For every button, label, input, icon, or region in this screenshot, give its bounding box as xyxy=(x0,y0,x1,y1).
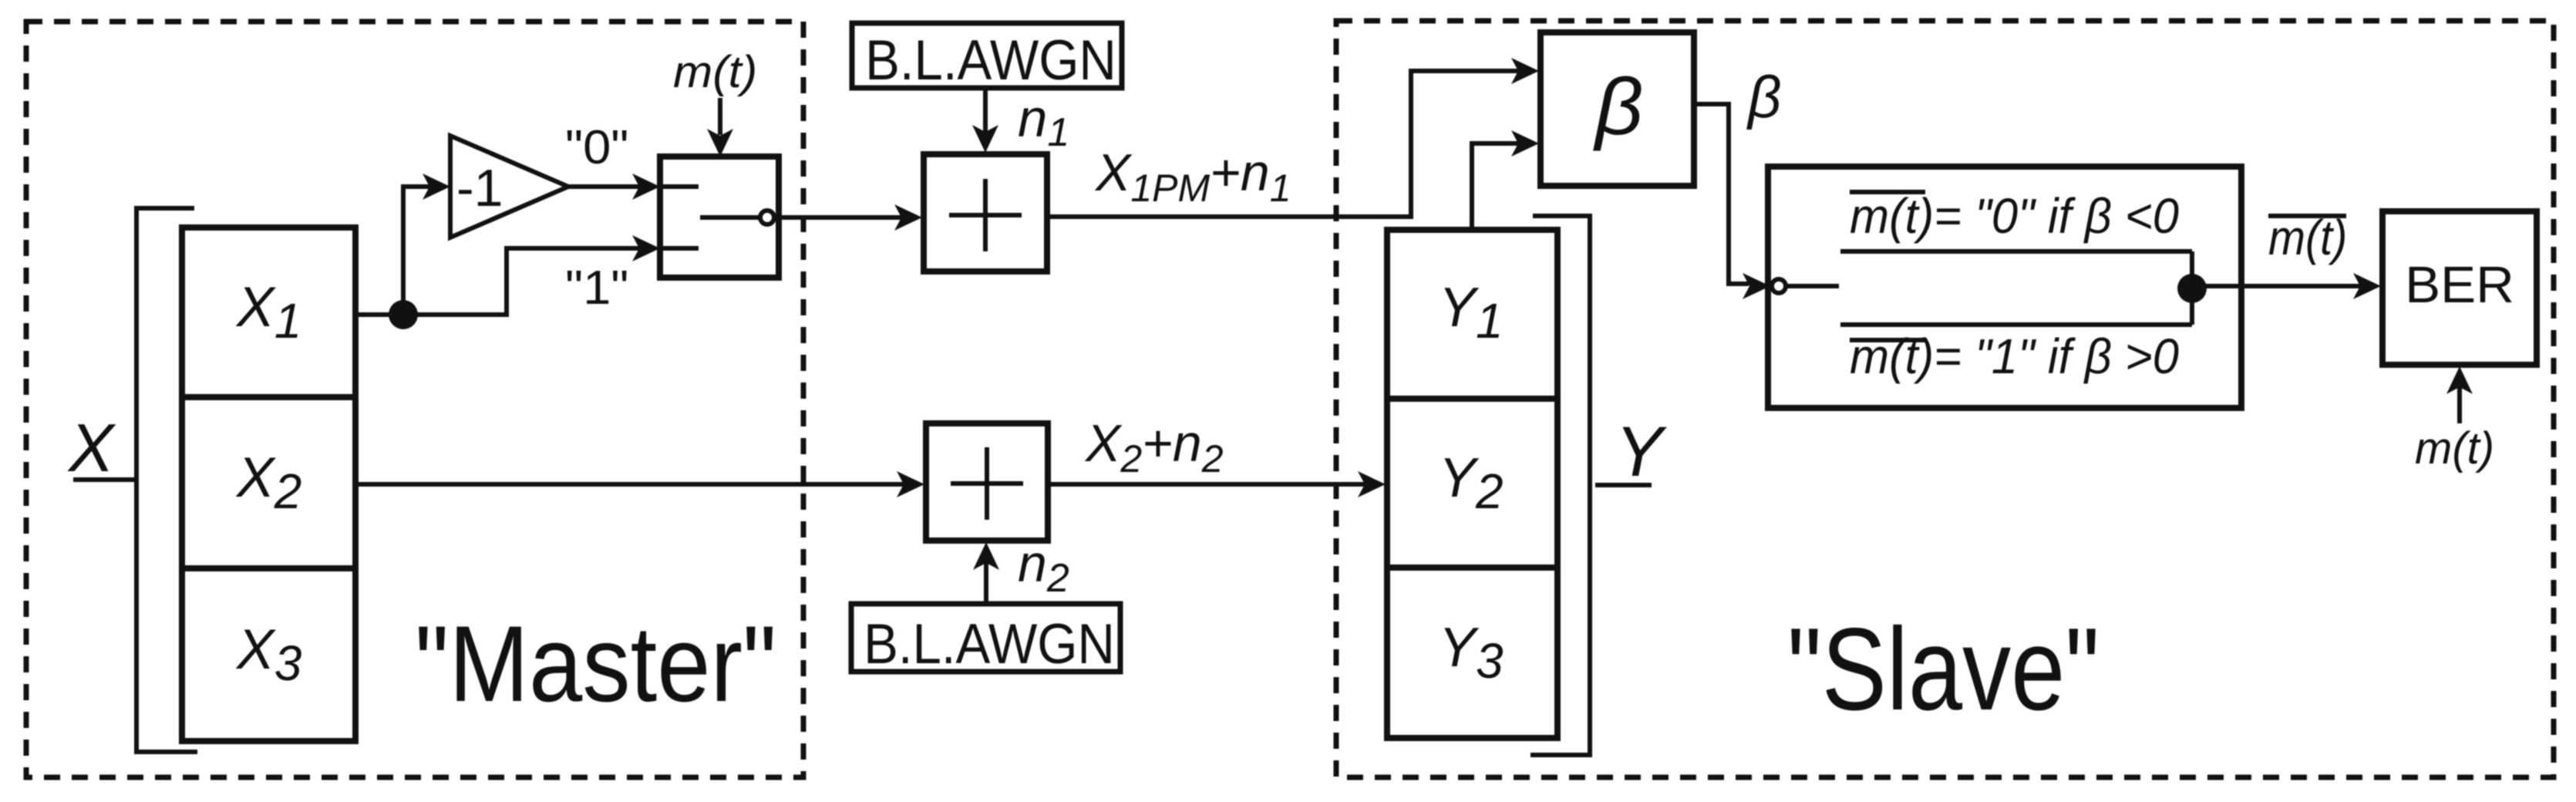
label B.L.AWGN 1 xyxy=(865,29,1116,91)
wire inverter to "0" input of switch xyxy=(568,184,651,189)
label beta wire xyxy=(1746,65,1781,130)
arrowhead m(t) into BER xyxy=(2446,366,2473,394)
overline of m(t) line2 xyxy=(1850,338,1925,342)
svg-text:-1: -1 xyxy=(456,159,503,217)
arrowhead m(t) into switch xyxy=(707,129,733,157)
label X1PM+n1 xyxy=(1094,143,1291,210)
arrowhead into BER xyxy=(2353,273,2381,299)
wire adder2 output to Y2 xyxy=(1048,482,1379,487)
label X3 xyxy=(235,618,302,691)
decision rule line 2 xyxy=(1850,329,2179,384)
svg-text:BER: BER xyxy=(2405,256,2514,314)
label "Slave" xyxy=(1787,604,2100,735)
B.L.AWGN source 2 box xyxy=(851,604,1120,672)
arrowhead into adder1 xyxy=(894,204,922,231)
BER box xyxy=(2382,211,2537,365)
label "1" xyxy=(565,261,628,314)
decision upper throw line xyxy=(1840,249,2192,254)
switch pole circle xyxy=(760,211,774,224)
label Y3 xyxy=(1439,617,1504,689)
svg-text:β: β xyxy=(1746,65,1781,130)
node junction dot xyxy=(389,300,418,329)
label X2+n2 xyxy=(1084,414,1224,480)
overline of m(t) output label xyxy=(2268,214,2346,218)
beta correlator box xyxy=(1541,32,1694,186)
svg-text:X: X xyxy=(67,409,116,486)
wire Y1 top to beta input 2 xyxy=(1472,143,1520,230)
arrowhead n2 into adder2 xyxy=(973,542,999,570)
Y register stack (Y1,Y2,Y3) xyxy=(1387,230,1557,738)
Y1/Y2 divider xyxy=(1387,396,1557,402)
B.L.AWGN source 1 box xyxy=(852,23,1122,88)
svg-text:m(t): m(t) xyxy=(2268,210,2347,265)
arrowhead into inverter xyxy=(423,174,450,200)
label -1 xyxy=(456,159,503,217)
svg-text:Y: Y xyxy=(1615,413,1667,491)
svg-text:m(t)= "0" if β <0: m(t)= "0" if β <0 xyxy=(1850,189,2179,244)
adder1 plus sign xyxy=(949,179,1022,251)
label "0" xyxy=(565,120,628,174)
Y vector bracket xyxy=(1530,216,1590,755)
label X1 xyxy=(235,276,301,349)
inverter (-1) triangle xyxy=(450,136,568,238)
arrowhead n1 into adder1 xyxy=(972,125,998,153)
X1/X2 divider xyxy=(182,394,355,400)
svg-text:"1": "1" xyxy=(565,261,628,314)
wire n1 into adder1 xyxy=(983,88,988,133)
wire X2 row output xyxy=(355,482,918,487)
decision lower throw line xyxy=(1840,322,2192,327)
wire n2 into adder2 xyxy=(984,562,988,604)
label m(t) reference xyxy=(2415,423,2494,473)
arrowhead "0" into switch xyxy=(632,174,660,200)
switch "1" throw stub xyxy=(660,246,699,251)
label beta in box xyxy=(1593,61,1643,151)
decision junction dot xyxy=(2177,274,2207,303)
m(t) control arrow into switch xyxy=(718,98,722,135)
wire decision output to BER xyxy=(2192,284,2373,288)
switch pole stub xyxy=(700,215,759,220)
arrowhead beta input 1 xyxy=(1511,58,1539,84)
svg-text:"Master": "Master" xyxy=(415,604,776,724)
label m(t) bar output xyxy=(2268,210,2347,265)
X2/X3 divider xyxy=(182,565,355,571)
decision pole line xyxy=(1787,284,1839,288)
svg-text:m(t)= "1" if β >0: m(t)= "1" if β >0 xyxy=(1850,329,2179,384)
wire node up to inverter xyxy=(403,187,441,315)
arrowhead beta input 2 xyxy=(1511,130,1539,157)
adder2 box xyxy=(926,423,1048,541)
adder2 plus sign xyxy=(951,447,1023,520)
svg-text:m(t): m(t) xyxy=(2415,423,2494,473)
label Y2 xyxy=(1439,447,1504,519)
label n1 xyxy=(1018,89,1069,155)
decision right vertical xyxy=(2190,251,2194,325)
label Y1 xyxy=(1439,277,1504,349)
svg-text:B.L.AWGN: B.L.AWGN xyxy=(864,612,1115,675)
arrowhead into adder2 xyxy=(897,471,924,497)
Y2/Y3 divider xyxy=(1387,564,1557,571)
X vector bracket xyxy=(136,208,197,752)
svg-text:β: β xyxy=(1593,61,1643,151)
wire switch to adder1 xyxy=(776,215,916,220)
switch "0" throw stub xyxy=(660,184,699,189)
svg-text:"0": "0" xyxy=(565,120,628,174)
label Y xyxy=(1615,413,1667,491)
Slave dashed enclosure xyxy=(1336,21,2554,777)
X register stack (X1,X2,X3) xyxy=(182,227,355,741)
switch (modulator) box xyxy=(660,157,779,278)
overline of m(t) line1 xyxy=(1850,190,1925,194)
label B.L.AWGN 2 xyxy=(864,612,1115,675)
m(t) reference arrow into BER xyxy=(2457,386,2462,423)
label X2 xyxy=(235,446,301,519)
decision rule line 1 xyxy=(1850,189,2179,244)
label m(t) top xyxy=(673,47,757,97)
svg-text:"Slave": "Slave" xyxy=(1787,604,2100,735)
wire X1 to node xyxy=(355,312,401,317)
Master dashed enclosure xyxy=(26,22,803,777)
label BER xyxy=(2405,256,2514,314)
decision rule box xyxy=(1768,167,2241,408)
svg-text:B.L.AWGN: B.L.AWGN xyxy=(865,29,1116,91)
label "Master" xyxy=(415,604,776,724)
X input tick xyxy=(73,477,136,482)
label n2 xyxy=(1018,534,1069,601)
decision input circle xyxy=(1772,279,1786,293)
Y output tick xyxy=(1595,483,1652,487)
wire node to "1" input of switch xyxy=(403,248,651,315)
svg-text:m(t): m(t) xyxy=(673,47,757,97)
arrowhead "1" into switch xyxy=(632,235,660,261)
adder1 box xyxy=(924,154,1047,271)
arrowhead beta into decision xyxy=(1743,273,1770,299)
wire adder1 output to beta input 1 xyxy=(1047,71,1520,217)
wire beta output xyxy=(1694,104,1749,284)
label X xyxy=(67,409,116,486)
arrowhead into Y2 xyxy=(1358,471,1386,497)
